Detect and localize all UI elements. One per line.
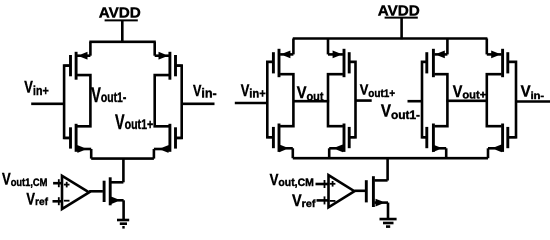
transistor M1 (PMOS, left branch of left stage) [64, 42, 90, 80]
transistor M2 (PMOS, right branch of left stage) [155, 42, 182, 80]
wire AVDD rail (left stage) [89, 40, 156, 43]
wire Vin- input (right stage) [516, 100, 550, 103]
wire Vout crossbar (right stage) [293, 100, 329, 103]
wire tail node (right stage) [293, 157, 488, 160]
wire gate feed Vout1+ (branch 2) [349, 62, 355, 138]
wire Vref input to op-amp (right stage) [317, 199, 329, 202]
svg-text:Vin+: Vin+ [241, 82, 266, 100]
supply AVDD symbol (right stage) [378, 4, 420, 20]
ground symbol (right stage) [380, 219, 397, 227]
wire tail node (left stage) [91, 157, 154, 160]
wire Vin+ input (left stage) [31, 103, 64, 106]
svg-text:Vout1-: Vout1- [381, 101, 420, 122]
node Vout+ wire (branch 4, right stage) [487, 74, 502, 126]
svg-text:Vref: Vref [26, 191, 48, 209]
svg-text:Vref: Vref [292, 191, 316, 210]
transistor M14 (tail NMOS, right stage) [354, 176, 388, 219]
node Vout1+ wire (left stage) [155, 75, 169, 126]
svg-text:Vout+: Vout+ [453, 82, 486, 102]
transistor M7 (PMOS, branch 2 of right stage) [328, 39, 356, 78]
svg-text:Vout1-: Vout1- [91, 84, 126, 107]
node Vout wire (branch 2, right stage) [328, 74, 343, 126]
transistor M3 (NMOS, left branch of left stage) [64, 124, 91, 159]
svg-text:Vout: Vout [297, 84, 324, 104]
wire gate feed Vin- (branch 4) [508, 62, 516, 138]
svg-text:Vin-: Vin- [193, 83, 217, 101]
wire gate feed Vout1- (branch 3) [422, 62, 427, 138]
wire Vin- input (left stage) [182, 103, 215, 106]
transistor M11 (NMOS, branch 2 of right stage) [329, 124, 355, 159]
svg-text:Vout,CM: Vout,CM [270, 172, 314, 189]
wire Vout1+ input stub (branch 2) [356, 99, 372, 102]
wire Vout,CM input to op-amp [316, 183, 329, 186]
transistor M8 (PMOS, branch 3 of right stage) [422, 39, 447, 78]
transistor M9 (PMOS, branch 4 of right stage) [487, 39, 516, 78]
svg-text:Vout1+: Vout1+ [115, 111, 153, 134]
supply AVDD symbol (left stage) [99, 6, 141, 22]
wire gate feed Vin+ (left stage) [64, 66, 70, 138]
node Vout+ wire (branch 3, right stage) [435, 74, 448, 126]
wire Vin+ input (right stage) [235, 102, 267, 105]
wire gate feed Vin+ (branch 1) [267, 62, 273, 138]
node Vout1- wire (left stage) [77, 75, 90, 126]
svg-text:Vin+: Vin+ [24, 79, 49, 98]
wire Vout1- input stub (branch 3) [408, 100, 423, 103]
svg-text:Vout1+: Vout1+ [360, 83, 396, 101]
transistor M6 (PMOS, branch 1 of right stage) [267, 39, 293, 78]
wire AVDD feed (right stage) [400, 18, 403, 40]
transistor M10 (NMOS, branch 1 of right stage) [267, 124, 293, 159]
wire gate feed Vin- (left stage) [176, 66, 182, 138]
op-amp A2 (CMFB, right stage) [329, 175, 355, 207]
transistor M5 (tail NMOS, left stage) [89, 177, 124, 220]
svg-text:Vin-: Vin- [521, 84, 545, 103]
ground symbol (left stage) [117, 220, 129, 227]
wire AVDD feed (left stage) [121, 20, 124, 43]
transistor M12 (NMOS, branch 3 of right stage) [422, 124, 446, 159]
wire tail feed (right stage) [386, 158, 389, 180]
svg-text:AVDD: AVDD [99, 6, 141, 22]
op-amp A1 (CMFB, left stage) [62, 176, 89, 209]
wire AVDD rail (right stage) [293, 37, 488, 40]
transistor M4 (NMOS, right branch of left stage) [154, 124, 182, 159]
wire tail feed (left stage) [122, 159, 125, 183]
transistor M13 (NMOS, branch 4 of right stage) [488, 124, 516, 159]
svg-text:Vout1,CM: Vout1,CM [2, 170, 48, 189]
wire Vout1,CM input to op-amp [53, 182, 62, 185]
wire Vref input to op-amp [53, 200, 63, 203]
node Vout wire (branch 1, right stage) [280, 74, 293, 126]
wire Vout+ crossbar (right stage) [446, 100, 488, 103]
